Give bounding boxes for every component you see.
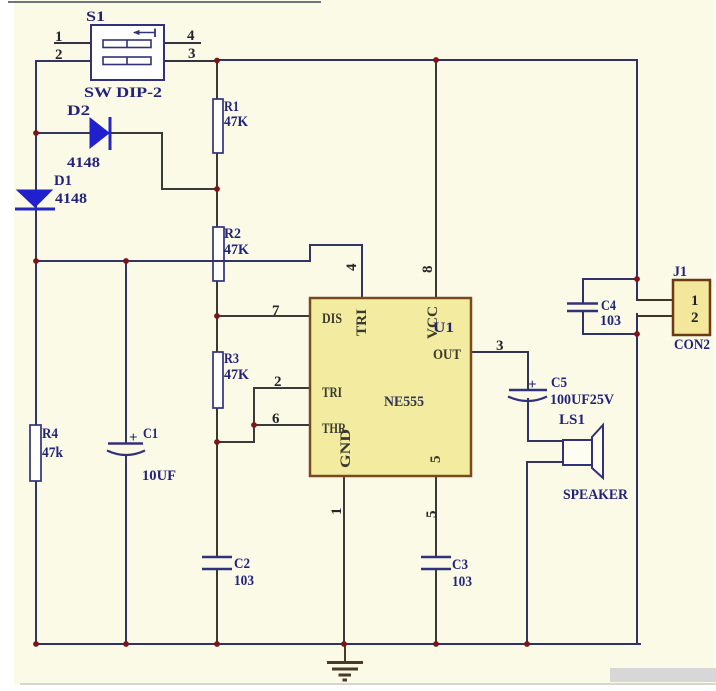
svg-text:LS1: LS1 xyxy=(559,412,585,428)
wire R column upper xyxy=(216,61,218,99)
wire right vertical upper xyxy=(636,60,638,300)
svg-text:5: 5 xyxy=(424,511,440,519)
svg-text:+: + xyxy=(129,430,138,446)
svg-text:3: 3 xyxy=(496,338,504,354)
wire R2 bottom to R3 top xyxy=(216,281,218,352)
wire THR pin6 xyxy=(254,424,310,426)
capacitor C3 xyxy=(421,557,451,569)
wire C3 to bottom rail xyxy=(435,569,437,644)
svg-text:100UF25V: 100UF25V xyxy=(550,392,614,408)
wire D2 cathode to R1/R2 junction xyxy=(110,133,217,189)
node bottom rail left corner xyxy=(33,641,39,647)
wire OUT pin3 xyxy=(471,352,528,390)
svg-text:R2: R2 xyxy=(224,226,241,242)
wire C5 to speaker xyxy=(528,399,563,441)
node DIS junction xyxy=(214,313,220,319)
speaker LS1 xyxy=(563,425,603,478)
svg-text:C5: C5 xyxy=(551,375,567,391)
node C1 bottom xyxy=(123,641,129,647)
svg-text:103: 103 xyxy=(452,574,472,590)
svg-text:U1: U1 xyxy=(433,320,454,336)
node D2 anode xyxy=(33,130,39,136)
svg-text:1: 1 xyxy=(55,29,63,45)
capacitor C2 xyxy=(202,557,232,569)
svg-text:OUT: OUT xyxy=(433,347,461,363)
svg-text:R1: R1 xyxy=(224,99,239,115)
node THR junction xyxy=(251,422,257,428)
svg-text:+: + xyxy=(528,377,537,393)
wire pin5 to C3 xyxy=(435,476,437,557)
diode D1 xyxy=(15,190,55,209)
svg-text:3: 3 xyxy=(188,46,196,62)
op-amp U1 NE555 body xyxy=(310,298,471,476)
node C2 bottom xyxy=(214,641,220,647)
svg-text:103: 103 xyxy=(234,573,254,589)
svg-text:SW DIP-2: SW DIP-2 xyxy=(84,85,162,101)
wire net rail y261 xyxy=(36,245,362,298)
wire C1 branch xyxy=(125,261,127,443)
node R3 bottom junction xyxy=(214,439,220,445)
node C4 top junction xyxy=(634,276,640,282)
wire speaker return xyxy=(527,462,563,644)
svg-text:R3: R3 xyxy=(224,351,239,367)
svg-text:10UF: 10UF xyxy=(142,468,176,484)
capacitor C5 xyxy=(508,377,547,401)
svg-text:C1: C1 xyxy=(143,426,158,442)
wire bottom rail xyxy=(36,643,640,645)
svg-text:4148: 4148 xyxy=(67,155,100,171)
node S1 pin3 / R1 top xyxy=(214,58,220,64)
resistor R1 xyxy=(213,99,223,153)
node C4 bottom junction xyxy=(634,331,640,337)
svg-text:8: 8 xyxy=(420,266,436,274)
resistor R4 xyxy=(30,425,41,481)
svg-text:DIS: DIS xyxy=(322,311,342,327)
capacitor C4 xyxy=(567,304,598,312)
svg-text:C3: C3 xyxy=(452,557,468,573)
svg-text:S1: S1 xyxy=(86,9,105,25)
svg-text:SPEAKER: SPEAKER xyxy=(563,487,628,503)
svg-text:TRI: TRI xyxy=(322,385,342,401)
diode D2 xyxy=(90,117,110,150)
svg-text:6: 6 xyxy=(272,411,280,427)
node D2 cathode / R1-R2 xyxy=(214,186,220,192)
ground xyxy=(327,644,363,680)
wire left vertical rail xyxy=(35,61,37,644)
wire TRI THR jog xyxy=(217,388,310,442)
node C1 top xyxy=(123,258,129,264)
svg-text:47K: 47K xyxy=(224,367,249,383)
svg-text:2: 2 xyxy=(55,47,63,63)
wire pin4 stub S1 xyxy=(164,42,200,44)
wire pin2 S1 to left rail xyxy=(36,60,91,62)
wire pin1 stub S1 xyxy=(55,42,91,44)
wire R1 bottom to R2 top xyxy=(216,153,218,227)
node speaker return xyxy=(524,641,530,647)
svg-text:1: 1 xyxy=(329,508,345,516)
wire R3 bottom to C2 xyxy=(216,408,218,557)
node C3 bottom xyxy=(433,641,439,647)
wire pin3 S1 to junction xyxy=(164,60,217,62)
wire DIS pin7 xyxy=(217,315,310,317)
svg-text:R4: R4 xyxy=(42,426,58,442)
wire right vertical lower xyxy=(636,314,638,644)
resistor R3 xyxy=(213,352,223,408)
switch S1 xyxy=(91,25,164,80)
node GND rail xyxy=(341,641,347,647)
svg-text:103: 103 xyxy=(600,313,621,329)
svg-text:D1: D1 xyxy=(54,173,72,189)
svg-text:J1: J1 xyxy=(673,264,687,280)
svg-text:NE555: NE555 xyxy=(384,394,424,410)
wire C4 loop xyxy=(583,279,637,303)
svg-text:TRI: TRI xyxy=(354,309,370,336)
wire top rail xyxy=(217,59,637,61)
resistor R2 xyxy=(213,227,224,281)
wire crossing R2 xyxy=(213,260,224,262)
svg-text:CON2: CON2 xyxy=(674,337,710,353)
svg-text:5: 5 xyxy=(428,456,444,464)
svg-text:7: 7 xyxy=(272,303,280,319)
node VCC tap xyxy=(433,57,439,63)
svg-text:D2: D2 xyxy=(67,103,90,119)
svg-text:1: 1 xyxy=(691,293,699,309)
svg-text:2: 2 xyxy=(691,310,699,326)
svg-text:47k: 47k xyxy=(42,445,64,461)
svg-text:4148: 4148 xyxy=(55,191,87,207)
svg-text:4: 4 xyxy=(187,28,195,44)
wire VCC pin8 xyxy=(435,60,437,298)
node left rail y261 xyxy=(33,258,39,264)
connector J1 xyxy=(673,280,710,335)
wire J1 pin2 xyxy=(637,315,673,317)
capacitor C1 xyxy=(107,430,145,455)
svg-text:47K: 47K xyxy=(224,242,249,258)
wire C1 to bottom rail xyxy=(125,457,127,644)
svg-text:C4: C4 xyxy=(601,298,616,314)
wire C2 to bottom rail xyxy=(216,569,218,644)
wire D2 anode branch xyxy=(36,132,90,134)
svg-text:C2: C2 xyxy=(234,556,250,572)
svg-text:GND: GND xyxy=(338,429,354,468)
svg-text:4: 4 xyxy=(344,263,360,271)
svg-text:47K: 47K xyxy=(224,114,248,130)
wire GND pin1 xyxy=(343,476,345,644)
svg-text:2: 2 xyxy=(274,374,282,390)
wire J1 pin1 xyxy=(637,299,673,301)
